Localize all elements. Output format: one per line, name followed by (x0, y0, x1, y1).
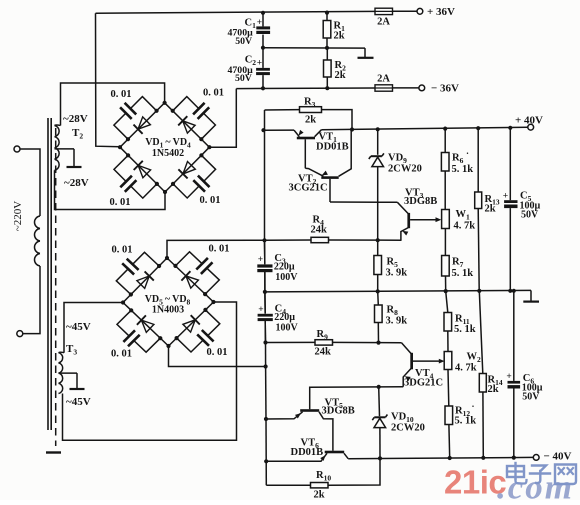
wire T2 center tap (55, 148, 75, 150)
resistor R8 3.9k (375, 291, 408, 344)
wire bridge2 bottom vertex to negative raw node (169, 346, 265, 367)
resistor R2 2k (324, 48, 347, 90)
svg-text:50V: 50V (235, 36, 252, 47)
ground (40V section) (523, 290, 539, 301)
label T2 (72, 127, 83, 141)
resistor R6 5.1k (441, 129, 473, 210)
diode VD5 (137, 271, 154, 288)
ground (T3 center tap) (70, 373, 85, 389)
label ~28V (T2 top) (63, 113, 88, 125)
resistor R10 2k (266, 458, 380, 500)
wire +36V top rail (96, 11, 418, 13)
label VT1 (319, 132, 338, 145)
label 3DG8B (404, 196, 437, 207)
svg-text:100V: 100V (275, 272, 298, 283)
transistor VT5 3DG8B (266, 409, 333, 451)
svg-text:2k: 2k (485, 204, 496, 215)
wire T2 top lead to bridge1 (61, 83, 165, 126)
svg-text:1N5402: 1N5402 (152, 148, 184, 159)
svg-text:+ 36V: + 36V (427, 6, 455, 18)
label 1N4003 (152, 305, 184, 316)
capacitor C5 100u 50V (503, 128, 541, 291)
capacitor C3 220u 100V (257, 240, 298, 292)
zener diode VD10 2CW20 (372, 387, 387, 458)
label ~220V (12, 201, 24, 231)
wire VT4 emitter to VT5 base (310, 385, 404, 409)
svg-text:3DG21C: 3DG21C (404, 378, 443, 389)
diode VD1 (134, 117, 151, 134)
wire T3 center tap (59, 372, 78, 374)
svg-text:2k: 2k (314, 490, 325, 501)
watermark chinese characters (507, 463, 576, 484)
wire primary top lead (20, 149, 40, 216)
terminal AC primary bottom (17, 331, 23, 337)
svg-text:5. 1k: 5. 1k (455, 416, 477, 427)
zener diode VD9 2CW20 (369, 129, 384, 240)
svg-text:·: · (466, 149, 469, 159)
label ~28V (T2 bottom) (64, 177, 89, 189)
resistor R1 2k (323, 11, 345, 51)
resistor R5 3.9k (374, 238, 407, 291)
label 0.01 (bridge2 SW) (111, 349, 132, 360)
terminal AC primary top (14, 146, 20, 152)
label T3 (66, 343, 77, 357)
wire primary bottom lead (23, 266, 40, 334)
diode VD3 (178, 162, 195, 179)
label ~45V (T3 bottom) (66, 396, 91, 408)
label 0.01 (bridge2 NE) (209, 244, 230, 255)
wire bridge1 diamond (120, 103, 209, 192)
capacitor 0.01 (bridge2 SW) (117, 308, 162, 352)
label VT5 (325, 398, 344, 411)
svg-text:0. 01: 0. 01 (203, 88, 224, 99)
svg-text:3CG21C: 3CG21C (289, 183, 328, 194)
label 0.01 (bridge2 NW) (112, 245, 133, 256)
capacitor C1 4700u 50V (228, 11, 271, 48)
label DD01B (316, 142, 349, 153)
svg-text:2A: 2A (377, 17, 390, 28)
svg-text:3DG8B: 3DG8B (322, 406, 355, 417)
diode VD8 (137, 315, 154, 332)
svg-text:DD01B: DD01B (316, 142, 349, 153)
label VT6 (301, 438, 320, 451)
node bridge2 vertices (121, 256, 216, 348)
label 0.01 (bridge1 NW) (111, 89, 132, 100)
svg-text:~220V: ~220V (12, 201, 24, 231)
ground (T2 center tap) (67, 149, 82, 167)
label ~45V (T3 top) (66, 321, 91, 333)
diode VD7 (183, 315, 200, 332)
terminal +40V (515, 115, 543, 131)
resistor R3 2k (265, 97, 353, 130)
wire 0V common rail (265, 289, 531, 294)
svg-text:0. 01: 0. 01 (200, 195, 221, 206)
svg-text:+: + (257, 59, 262, 69)
watermark 21ic logo (444, 464, 574, 505)
label 2CW20 (391, 423, 425, 434)
svg-text:+: + (503, 192, 508, 202)
svg-text:− 36V: − 36V (431, 82, 459, 94)
svg-text:4. 7k: 4. 7k (455, 363, 477, 374)
svg-text:50V: 50V (521, 210, 539, 221)
svg-text:+ 40V: + 40V (515, 115, 543, 127)
ground (36V section) (358, 48, 374, 58)
svg-text:5. 1k: 5. 1k (452, 268, 474, 279)
capacitor 0.01 (bridge1 SE) (171, 153, 216, 198)
inductor primary winding ~220V (34, 216, 40, 266)
svg-text:+: + (257, 18, 262, 28)
label 0.01 (bridge2 SE) (207, 347, 228, 358)
label VD5~VD8 (145, 294, 191, 307)
resistor R9 24k (266, 329, 402, 358)
svg-text:3DG8B: 3DG8B (404, 196, 437, 207)
potentiometer W1 4.7k (442, 209, 476, 232)
svg-text:220µ: 220µ (274, 312, 295, 323)
wire 0V mid rail (261, 46, 365, 50)
svg-text:2k: 2k (488, 384, 499, 395)
svg-text:~28V: ~28V (64, 177, 89, 189)
label 3DG21C (404, 378, 443, 389)
svg-text:0. 01: 0. 01 (110, 197, 131, 208)
transistor VT6 DD01B (266, 451, 348, 462)
label VT3 (405, 188, 424, 201)
svg-text:5. 1k: 5. 1k (454, 324, 476, 335)
capacitor C2 4700u 50V (228, 48, 270, 89)
inductor T3 secondary (59, 352, 65, 393)
svg-text:3. 9k: 3. 9k (386, 268, 408, 279)
terminal +36V (417, 6, 455, 18)
svg-text:+: + (258, 305, 263, 315)
svg-text:0. 01: 0. 01 (112, 245, 133, 256)
label VT2 (298, 174, 317, 187)
svg-text:·: · (472, 402, 475, 412)
svg-text:− 40V: − 40V (544, 450, 572, 462)
svg-text:~45V: ~45V (66, 396, 91, 408)
svg-text:2CW20: 2CW20 (388, 164, 422, 175)
svg-text:220µ: 220µ (274, 261, 295, 272)
wire +40V pass line (261, 126, 527, 133)
label 0.01 (bridge1 SE) (200, 195, 221, 206)
label 0.01 (bridge1 SW) (110, 197, 131, 208)
wire -36V rail (236, 86, 419, 90)
svg-text:100V: 100V (276, 323, 299, 334)
label VD9 (388, 153, 407, 166)
fuse 2A (top) (375, 8, 393, 27)
transformer core (46, 118, 61, 453)
capacitor C4 220u 100V (258, 292, 299, 343)
svg-text:4. 7k: 4. 7k (454, 221, 476, 232)
svg-text:0. 01: 0. 01 (111, 89, 132, 100)
potentiometer W2 4.7k (444, 352, 481, 374)
wire VT2 base to VT3 collector (330, 201, 397, 203)
wire -40V rail (348, 456, 533, 461)
svg-text:24k: 24k (311, 225, 328, 236)
resistor R12 5.1k (445, 370, 476, 459)
label 3DG8B (322, 406, 355, 417)
svg-text:+: + (258, 255, 263, 265)
terminal -40V (533, 450, 571, 462)
svg-text:50V: 50V (235, 73, 252, 84)
svg-text:50V: 50V (522, 391, 540, 402)
wire bridge2 top vertex to filter node (167, 240, 265, 258)
wire T3 top lead to bridge2 (64, 303, 123, 353)
wire T3 bottom lead return to bridge2 right (63, 302, 237, 440)
resistor R13 2k (475, 128, 500, 291)
wire bridge2 diamond (123, 258, 214, 346)
node bridge1 vertices (118, 101, 212, 194)
svg-text:0. 01: 0. 01 (111, 349, 132, 360)
wire T2 bottom lead to bridge1 (55, 170, 166, 209)
svg-text:3. 9k: 3. 9k (386, 316, 408, 327)
label 3CG21C (289, 183, 328, 194)
diode VD4 (134, 161, 151, 178)
diode VD2 (178, 116, 195, 133)
svg-text:2k: 2k (334, 31, 345, 42)
label VT4 (415, 368, 434, 381)
svg-text:~28V: ~28V (63, 113, 88, 125)
transistor VT4 3DG21C (402, 343, 445, 387)
svg-text:2k: 2k (335, 70, 346, 81)
svg-text:24k: 24k (315, 347, 332, 358)
svg-text:2A: 2A (377, 74, 390, 85)
capacitor C6 100u 50V (506, 291, 542, 458)
transistor VT1 DD01B (294, 130, 322, 169)
capacitor 0.01 (bridge1 SW) (114, 153, 159, 198)
svg-text:0. 01: 0. 01 (207, 347, 228, 358)
svg-text:1N4003: 1N4003 (152, 305, 184, 316)
capacitor 0.01 (bridge1 NE) (171, 97, 216, 142)
resistor R7 5.1k (442, 229, 474, 292)
svg-text:2k: 2k (305, 115, 316, 126)
wire left drop from top rail to bridge (96, 13, 121, 147)
svg-text:DD01B: DD01B (291, 447, 324, 458)
transistor VT3 3DG8B (397, 202, 441, 240)
fuse 2A (bottom) (375, 74, 393, 92)
wire raw supply column (262, 110, 268, 485)
svg-text:2CW20: 2CW20 (391, 423, 425, 434)
wire -36V rail to bridge1 right vertex (209, 89, 236, 148)
diode VD6 (181, 271, 198, 288)
capacitor 0.01 (bridge1 NW) (114, 97, 159, 142)
resistor R14 2k (479, 291, 503, 458)
label 0.01 (bridge1 NE) (203, 88, 224, 99)
label 2CW20 (388, 164, 422, 175)
transistor VT2 3CG21C (305, 130, 351, 203)
svg-text:+: + (506, 372, 511, 382)
svg-text:~45V: ~45V (66, 321, 91, 333)
svg-text:0. 01: 0. 01 (209, 244, 230, 255)
label VD1~VD4 (145, 137, 191, 150)
resistor R4 24k (265, 215, 402, 243)
label DD01B (291, 447, 324, 458)
inductor T2 secondary (55, 125, 61, 170)
resistor R11 5.1k (444, 291, 476, 351)
capacitor 0.01 (bridge2 NW) (116, 252, 161, 296)
label VD10 (391, 412, 414, 425)
terminal -36V (419, 82, 459, 94)
capacitor 0.01 (bridge2 SE) (175, 308, 220, 352)
capacitor 0.01 (bridge2 NE) (173, 252, 219, 296)
label 1N5402 (152, 148, 184, 159)
svg-text:5. 1k: 5. 1k (452, 164, 474, 175)
